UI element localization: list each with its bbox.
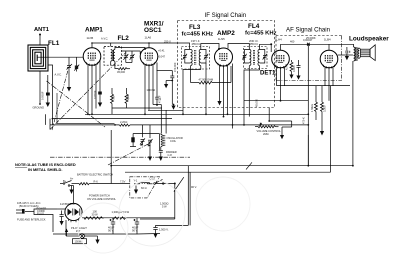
wire plug to rectifier — [34, 209, 65, 232]
V6 internals diodes — [68, 209, 80, 216]
svg-text:1LA6: 1LA6 — [145, 36, 152, 40]
svg-text:45,000: 45,000 — [255, 99, 259, 107]
FL2 transformer primary — [111, 50, 113, 62]
wire choke leads — [134, 183, 153, 185]
wire V1 plate to FL2 — [92, 43, 190, 49]
GROUND label — [33, 106, 45, 110]
AC plug symbol — [16, 209, 34, 214]
AVC wire with resistor R4 — [191, 66, 232, 84]
wire V5 plate to output transformer — [338, 54, 353, 56]
wire speaker voice coil leads — [359, 48, 360, 58]
svg-text:750: 750 — [112, 95, 116, 100]
FL2 transformer secondary — [113, 50, 115, 62]
svg-text:AMP2: AMP2 — [217, 30, 235, 37]
oscillator sub box wires — [133, 125, 159, 150]
svg-text:0.047: 0.047 — [159, 55, 166, 59]
screen resistor label — [147, 88, 156, 92]
gang line antenna trimmer — [47, 81, 106, 127]
trimmer capacitor C3 — [123, 54, 128, 61]
svg-text:0.005: 0.005 — [292, 65, 296, 72]
wire T1 bottom down to bus — [352, 61, 354, 166]
vertical bus left — [49, 119, 51, 125]
AVC top label — [101, 37, 109, 41]
Loudspeaker label — [349, 35, 389, 42]
part number box — [73, 239, 87, 244]
note text — [15, 162, 76, 172]
bus B plus main — [85, 113, 308, 115]
svg-text:A.V.C.: A.V.C. — [55, 73, 63, 77]
plus mark C19 — [110, 219, 112, 221]
coupling junction dot — [307, 43, 309, 45]
svg-text:90 V.: 90 V. — [132, 229, 138, 233]
ground arrow osc grid — [164, 81, 168, 89]
svg-text:A+: A+ — [70, 177, 74, 181]
svg-text:470,000: 470,000 — [173, 62, 177, 72]
resistor R6 vertical with label — [315, 86, 318, 120]
bleeder value label — [160, 202, 168, 209]
svg-text:ON VOLUME CONTROL: ON VOLUME CONTROL — [87, 197, 117, 201]
capacitor C5 screen bypass — [98, 60, 102, 103]
bus osc screen — [148, 109, 183, 111]
tube V3 AMP2 envelope — [215, 48, 233, 66]
T1 secondary — [358, 48, 359, 58]
FL3 trimmer cap left — [183, 50, 191, 64]
svg-text:470 K: 470 K — [302, 117, 306, 124]
svg-text:455 KC.: 455 KC. — [192, 42, 202, 46]
bus to detector drop — [243, 101, 245, 125]
IF signal chain box — [178, 21, 275, 108]
wire rectifier top — [73, 186, 75, 204]
gang line steep to antenna trimmer — [52, 70, 68, 130]
tube pin ticks — [218, 63, 229, 67]
junction dot power — [174, 183, 176, 185]
bus filament with resistor R8 — [50, 124, 308, 126]
FL3 core — [195, 50, 196, 65]
svg-text:FL1: FL1 — [48, 40, 60, 47]
capacitor C9 body — [130, 137, 136, 146]
wire V4 plate up — [280, 44, 282, 50]
7.5V label — [120, 180, 126, 184]
gang line dial to FL2 — [50, 52, 126, 129]
switch blade 2 — [174, 177, 184, 191]
resistor R11 filter — [113, 217, 127, 220]
svg-text:90 V.: 90 V. — [108, 229, 114, 233]
capacitor C18 line filter — [60, 211, 64, 222]
top cap dots — [91, 42, 272, 50]
bus AVC line — [277, 85, 351, 87]
svg-text:60 Ω: 60 Ω — [141, 186, 147, 190]
watermark ghost circle 2 — [196, 177, 250, 231]
FL2 core — [112, 50, 113, 61]
vertical drop x45 — [45, 114, 47, 125]
ground arrow AMP2 cathode — [217, 101, 221, 106]
wire loop bottom to ground terminal — [39, 71, 41, 104]
svg-text:C-8: C-8 — [168, 153, 173, 157]
FL3 transformer secondary — [199, 50, 201, 66]
wire bus left corner — [49, 125, 51, 130]
wire FL2 secondary top to MXR grid — [115, 48, 145, 50]
ground arrow below R7 — [320, 131, 324, 136]
oscillator grid capacitor C11 chain — [157, 71, 175, 105]
svg-text:Loudspeaker: Loudspeaker — [349, 35, 389, 42]
svg-text:fc=455 KHz: fc=455 KHz — [182, 32, 214, 38]
tube V3 internals — [219, 53, 227, 61]
bus B minus — [111, 130, 353, 184]
rectifier label — [60, 202, 75, 206]
pilot light label — [71, 226, 87, 233]
wire volume feed vertical — [307, 44, 309, 165]
antenna terminal dot — [39, 34, 41, 36]
tube V5 1LB4 envelope — [320, 50, 338, 68]
AC input labels — [17, 201, 46, 222]
R2 value label — [126, 94, 130, 100]
padder capacitor C8 — [159, 147, 163, 157]
crossover tick — [246, 162, 252, 169]
resistor R10 surge — [84, 217, 104, 220]
svg-text:AMP1: AMP1 — [85, 27, 103, 34]
choke value label — [141, 186, 147, 190]
plus mark C20 — [134, 219, 136, 221]
svg-text:30 W: 30 W — [92, 212, 99, 216]
ground return bus bottom — [53, 233, 137, 235]
capacitor C6 vertical — [297, 60, 301, 76]
wire FL2 bottom leads — [110, 61, 112, 65]
power switch blade — [154, 179, 175, 184]
wire loop right side down — [48, 65, 53, 125]
svg-text:FL2: FL2 — [118, 35, 130, 42]
svg-text:IF Signal Chain: IF Signal Chain — [205, 12, 247, 19]
FL1 label — [48, 40, 60, 47]
tube V6 rectifier envelope — [65, 203, 82, 220]
ground arrow below C2 — [46, 103, 50, 108]
tube V4 DET1 envelope — [272, 50, 290, 68]
bus A battery — [125, 86, 331, 173]
junction dots extra — [52, 104, 354, 167]
loudspeaker body — [361, 45, 376, 61]
svg-text:FL4: FL4 — [248, 23, 260, 30]
svg-text:DET1: DET1 — [260, 71, 276, 77]
FL4 transformer secondary — [258, 50, 260, 66]
filter capacitor C20 — [132, 218, 139, 234]
tube type 1LH4 — [275, 37, 282, 41]
tube pin ticks — [144, 62, 155, 66]
ground arrow below C6 — [296, 76, 300, 80]
wire V5 plate top — [328, 44, 330, 50]
FL3 transformer primary — [191, 50, 193, 66]
wire FL4 secondary to DET grid — [260, 44, 272, 52]
svg-text:5 W: 5 W — [162, 205, 167, 209]
svg-text:fc=455 KHz: fc=455 KHz — [245, 30, 277, 36]
padder label — [166, 150, 177, 157]
L1 core dashes — [164, 135, 165, 147]
AVC label — [55, 73, 63, 77]
capacitor C2 body — [46, 75, 50, 103]
R6 value label — [310, 104, 314, 112]
svg-text:Y-1: Y-1 — [134, 179, 138, 183]
tube type 1LN5 — [87, 36, 94, 40]
AMP1 label — [85, 27, 103, 34]
tube V4 internals — [276, 55, 284, 63]
net labels A+ B+ — [63, 177, 98, 184]
capacitor C17 with ground — [134, 186, 138, 195]
wire FL4 bottoms down — [248, 66, 250, 117]
svg-text:250 V.: 250 V. — [164, 39, 172, 43]
junction dots on buses — [91, 100, 309, 167]
svg-text:0.05UF: 0.05UF — [41, 91, 45, 100]
wire screen feed — [112, 107, 162, 109]
output transformer T1 primary — [354, 47, 356, 61]
trimmer capacitor C1b — [74, 57, 79, 71]
svg-text:1 MEG: 1 MEG — [310, 104, 314, 112]
output tube value label — [306, 36, 316, 40]
tube V1 AMP1 envelope — [83, 48, 101, 66]
AMP2 label — [217, 30, 235, 41]
ground arrow below C1 — [67, 87, 71, 92]
tube pin ticks — [324, 65, 335, 69]
470K label vertical — [302, 117, 306, 124]
svg-text:100 KΩ: 100 KΩ — [147, 88, 156, 92]
FL4 trimmer cap left — [242, 50, 249, 64]
svg-text:A.V.C.: A.V.C. — [101, 37, 109, 41]
svg-text:0.05UF: 0.05UF — [93, 90, 97, 99]
wire pilot to ground — [95, 236, 99, 244]
wire MXR grid — [139, 51, 141, 54]
C2 value label — [41, 91, 45, 100]
trimmer capacitor C10 — [140, 138, 145, 145]
bus screen grid — [53, 118, 173, 120]
ground arrow volume return — [280, 135, 284, 139]
ground arrow osc bus — [171, 105, 175, 110]
ground arrow below R5 — [289, 75, 293, 79]
FL2 shield box — [104, 47, 122, 66]
battery switch contacts — [60, 181, 79, 187]
watermark ghost circle 3 — [78, 203, 128, 253]
svg-text:2MΩ: 2MΩ — [263, 132, 269, 136]
svg-text:455 KC: 455 KC — [250, 42, 259, 46]
C5 value label — [93, 90, 97, 99]
FL3 shield box — [182, 47, 210, 70]
svg-text:+0.41: +0.41 — [158, 49, 165, 53]
wire loop inner end to AMP1 grid — [37, 56, 83, 58]
ground terminal dot — [39, 103, 41, 105]
FL4 core — [253, 50, 254, 65]
FL4 labels — [245, 23, 277, 46]
svg-text:4,7M: 4,7M — [285, 64, 289, 70]
filter choke L2 — [140, 182, 150, 184]
svg-text:3,300: 3,300 — [323, 105, 327, 112]
tube pin ticks — [87, 62, 98, 66]
svg-text:ANT1: ANT1 — [34, 27, 49, 33]
watermark ghost circle 1 — [119, 180, 185, 246]
coupling cap value label — [303, 38, 313, 42]
svg-text:1LB4: 1LB4 — [324, 37, 331, 41]
tube V1 internals — [88, 53, 96, 61]
wire V2 pins down — [144, 65, 146, 115]
C-17 label — [150, 176, 156, 180]
svg-text:25,000K: 25,000K — [306, 36, 316, 40]
IF Signal Chain label — [205, 12, 247, 19]
svg-text:R-6: R-6 — [94, 179, 99, 183]
AF signal chain box — [276, 36, 342, 81]
R11 value label — [112, 210, 130, 214]
battery electric switch label — [77, 173, 113, 177]
wire V4 pins down — [276, 67, 278, 86]
svg-text:VOLUME CONTROL: VOLUME CONTROL — [257, 129, 282, 133]
wire FL3 secondary to AMP2 grid — [201, 44, 219, 50]
trimmer capacitor C4 — [130, 54, 135, 61]
wire rectifier cathode down — [65, 220, 67, 236]
tube V2 MXR1/OSC1 envelope — [140, 48, 158, 66]
ground arrow battery — [69, 186, 73, 195]
wire T1 top to B+ — [329, 44, 354, 47]
resistor R2 vertical — [125, 88, 128, 108]
wire V3 plate to FL4 — [228, 44, 249, 50]
capacitor C12 — [155, 94, 159, 105]
arrow pilot lead — [65, 229, 68, 237]
volume control potentiometer — [255, 123, 279, 128]
DET1 label — [260, 71, 276, 77]
rectifier pin ticks — [69, 219, 79, 223]
svg-text:460: 460 — [290, 40, 295, 44]
power filter dash-dot box — [130, 177, 160, 198]
wire coupling to 1LB4 — [281, 43, 330, 45]
wire FL3 right trimmer drop — [205, 63, 207, 114]
wire V1 pins down — [87, 65, 89, 115]
svg-text:1,500 V.: 1,500 V. — [159, 228, 169, 232]
C11 value label — [173, 62, 177, 72]
ground arrow below padder — [159, 157, 163, 162]
pilot lamp — [66, 234, 98, 239]
FL4 trimmer cap right — [260, 50, 267, 64]
svg-text:1LN5: 1LN5 — [87, 36, 94, 40]
C6 value label — [292, 65, 296, 72]
resistor R1 vertical — [111, 88, 114, 114]
svg-text:COIL: COIL — [170, 139, 177, 143]
C12 value label — [157, 95, 161, 103]
svg-text:GROUND: GROUND — [33, 106, 45, 110]
wire L1 top — [160, 133, 162, 136]
svg-text:NOTE:: NOTE: — [15, 162, 27, 167]
R7 value label — [323, 105, 327, 112]
R5 value label — [285, 64, 289, 70]
wire volume control ground drop — [307, 135, 309, 166]
R3 value label — [117, 70, 125, 74]
ground arrow below C18 — [60, 221, 64, 225]
wire trimmers to grid line — [122, 51, 141, 63]
90V label — [191, 185, 197, 189]
antenna ANT1 label — [34, 27, 49, 33]
T1 core — [356, 47, 357, 61]
tube pin ticks — [275, 65, 286, 69]
MXR1/OSC1 labels — [144, 20, 164, 39]
wire V5 pins down — [324, 67, 326, 85]
tube V2 internals — [145, 53, 153, 61]
resistor R9 — [79, 183, 89, 185]
wire switch to right — [89, 183, 130, 185]
grid resistor label — [290, 40, 295, 44]
ground arrow osc left — [148, 157, 152, 162]
svg-text:7.5V: 7.5V — [120, 180, 126, 184]
IF bypass label — [255, 99, 259, 107]
tube type 1LB4 — [324, 37, 331, 41]
FL4 transformer primary — [249, 50, 251, 66]
svg-text:BATTERY ELECTRIC SWITCH: BATTERY ELECTRIC SWITCH — [77, 173, 113, 177]
wire rectifier output line — [82, 217, 175, 219]
R1 value label — [112, 95, 116, 100]
resistor R7 vertical with label — [321, 86, 324, 131]
wire V3 pins down — [219, 65, 221, 101]
svg-text:1LN5: 1LN5 — [218, 37, 225, 41]
R8 value label — [120, 120, 127, 124]
svg-text:IN METAL SHIELD.: IN METAL SHIELD. — [28, 167, 62, 172]
oscillator coil L1 — [161, 134, 163, 146]
R10 value label — [92, 210, 99, 217]
FL2 label — [118, 35, 130, 42]
svg-text:47μμF: 47μμF — [157, 95, 161, 103]
shield boundary dash-dot — [50, 156, 190, 158]
ground arrow below C5 — [98, 103, 102, 108]
volume control label — [257, 129, 282, 136]
ground arrow below C7 — [345, 56, 349, 60]
wire B plus drop — [174, 184, 176, 220]
svg-text:3,3K: 3,3K — [126, 94, 130, 100]
filter capacitor C19 — [108, 218, 115, 234]
gang line to oscillator — [108, 143, 151, 166]
FL4 shield box — [244, 47, 268, 69]
trimmer capacitor C1 — [67, 57, 73, 87]
loop antenna FL1 — [28, 45, 48, 71]
bias labels — [158, 39, 172, 58]
wire B feed vertical pair — [188, 166, 190, 226]
power switch label — [87, 194, 117, 201]
svg-text:90 V.: 90 V. — [191, 185, 197, 189]
resistor R5 vertical — [290, 60, 293, 75]
filter capacitor C21 — [153, 225, 168, 238]
svg-text:FUSE AND INTERLOCK: FUSE AND INTERLOCK — [17, 218, 46, 222]
svg-text:AF Signal Chain: AF Signal Chain — [286, 27, 330, 34]
svg-text:FL3: FL3 — [189, 24, 201, 31]
wire V2 plate to FL3 — [148, 43, 150, 48]
AF Signal Chain label — [286, 27, 330, 34]
capacitor C7 tone — [346, 47, 350, 56]
resistor R3 — [118, 68, 130, 70]
svg-text:OSC1: OSC1 — [144, 27, 162, 34]
svg-text:PLUG: PLUG — [37, 212, 44, 216]
oscillator coil label — [167, 136, 183, 143]
svg-text:2,2KΩ: 2,2KΩ — [120, 120, 127, 124]
wire AVC feed to volume — [268, 108, 291, 136]
wire antenna lead — [39, 35, 41, 46]
trimmer capacitor C6 osc tuning — [148, 139, 153, 157]
junction dot screen — [156, 104, 158, 106]
wire FL3 bottoms down — [190, 66, 192, 83]
wire shape bevel corner — [57, 93, 115, 123]
FL3 labels — [182, 24, 214, 46]
wire lower return — [140, 218, 175, 220]
Y-1 label — [134, 179, 138, 183]
R4 value label — [199, 77, 214, 81]
FL3 trimmer cap right — [201, 50, 208, 64]
wire cap return — [156, 224, 189, 226]
bus AF return — [244, 100, 308, 102]
wire osc section drops — [153, 63, 166, 134]
tube V5 internals — [325, 55, 333, 63]
svg-text:45,000: 45,000 — [117, 70, 125, 74]
